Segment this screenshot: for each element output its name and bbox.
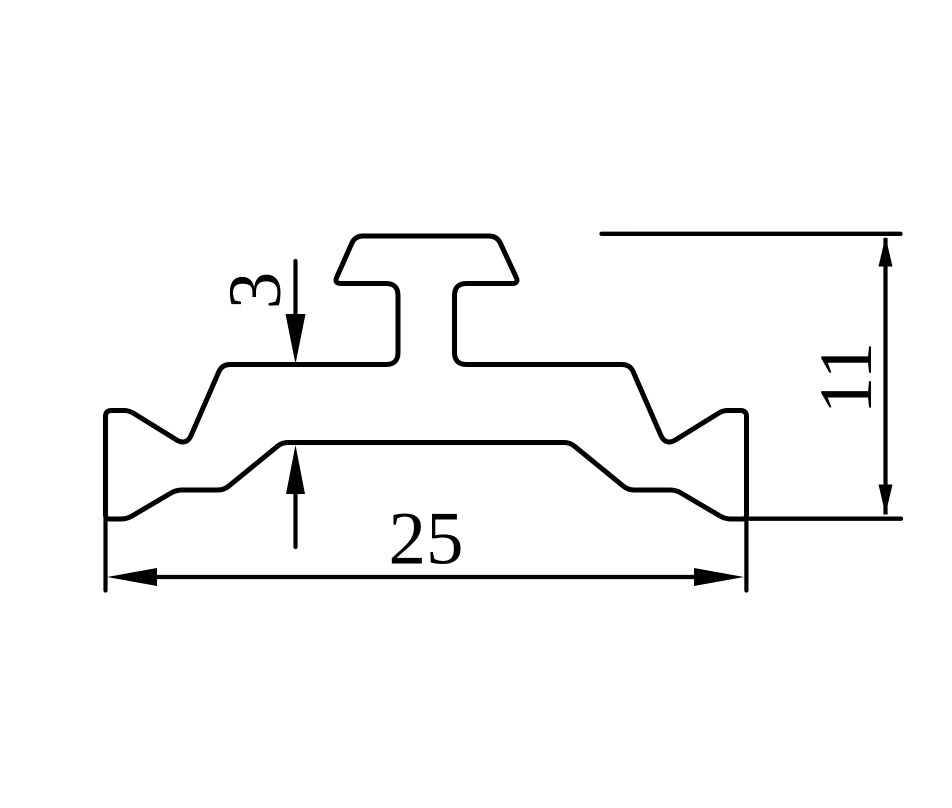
dim 3 bottom arrowhead (points up at recess plateau) xyxy=(286,445,305,494)
dim 3 top arrow line xyxy=(293,261,297,320)
extension line top (dim 11) xyxy=(602,232,901,236)
extension line left (dim 25) xyxy=(103,519,107,591)
svg-text:11: 11 xyxy=(805,342,888,414)
arrowhead 11 bottom xyxy=(879,485,893,515)
svg-text:3: 3 xyxy=(214,272,297,310)
arrowhead 11 top xyxy=(879,237,893,267)
svg-text:25: 25 xyxy=(389,498,464,581)
dim 3 bottom arrow line xyxy=(293,490,297,547)
extension line right (dim 25) xyxy=(744,519,748,591)
arrowhead 25 right xyxy=(694,568,744,586)
extrusion profile outline xyxy=(106,236,747,519)
arrowhead 25 left xyxy=(107,568,157,586)
dimension line 11 xyxy=(883,238,887,515)
dim 3 top arrowhead (points down at body top) xyxy=(286,314,306,364)
extension line bottom (dim 11) xyxy=(750,517,901,521)
dimension line 25 xyxy=(152,575,700,579)
